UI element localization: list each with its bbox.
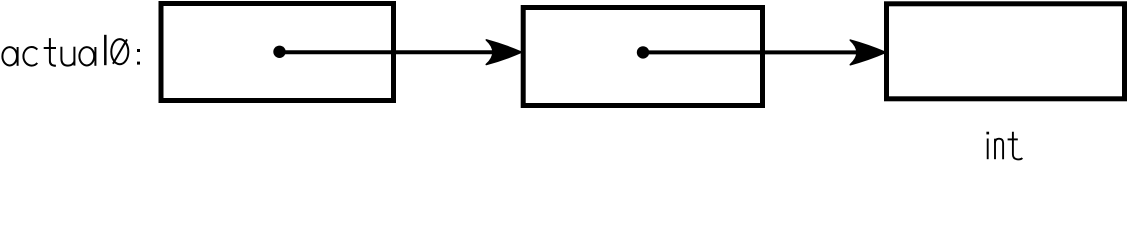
glyph u xyxy=(61,47,74,66)
glyph l xyxy=(104,35,107,65)
glyph c xyxy=(23,47,37,66)
wire arrow 1 shaft xyxy=(280,50,506,54)
glyph t xyxy=(44,38,56,66)
pointer dot node 1 xyxy=(273,46,285,58)
glyph t xyxy=(1008,132,1023,160)
glyph 0 slashed xyxy=(111,39,128,64)
glyph n xyxy=(995,139,1003,160)
arrow 2 head xyxy=(850,40,885,65)
glyph a xyxy=(2,47,17,66)
wire arrow 2 shaft xyxy=(643,50,869,54)
glyph colon xyxy=(137,49,140,65)
node box 3 xyxy=(887,4,1125,99)
label actual0: xyxy=(2,35,140,66)
node box 2 xyxy=(523,8,762,106)
glyph i xyxy=(986,132,989,160)
pointer dot node 2 xyxy=(637,46,649,58)
node box 1 xyxy=(161,4,394,101)
arrow 1 head xyxy=(486,40,521,65)
glyph a xyxy=(79,47,95,66)
type label int xyxy=(986,132,1022,160)
